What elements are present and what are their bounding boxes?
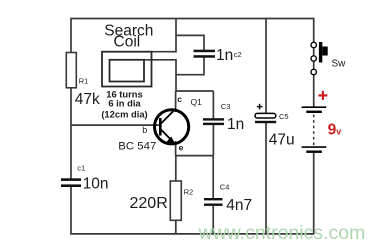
wire switch to battery <box>313 75 315 107</box>
svg-text:9v: 9v <box>328 121 342 138</box>
coil L1 inner winding rectangle <box>110 60 145 82</box>
svg-text:C3: C3 <box>221 102 231 111</box>
wire battery to bottom rail <box>313 153 315 234</box>
coil L1 outer winding rectangle <box>102 52 152 87</box>
battery BT1 cell2 short plate <box>306 151 322 153</box>
wire C2 branch top <box>176 35 204 50</box>
capacitor C4 plates <box>204 198 223 206</box>
wire switch link 2 <box>313 62 315 70</box>
capacitor C5 positive plate (outlined) <box>255 113 276 118</box>
wire C5 lower lead <box>265 123 267 234</box>
svg-text:47u: 47u <box>269 131 295 148</box>
wire right rail to switch <box>313 19 315 43</box>
svg-text:1n: 1n <box>227 116 244 133</box>
svg-text:c2: c2 <box>234 50 242 59</box>
svg-text:BC 547: BC 547 <box>118 140 156 152</box>
wire emitter loop bottom <box>176 155 214 157</box>
capacitor C3 plates <box>203 118 224 125</box>
wire R2 to bottom rail <box>175 220 177 234</box>
svg-text:10n: 10n <box>83 176 109 193</box>
svg-text:e: e <box>179 142 184 152</box>
wire left rail middle <box>70 88 72 179</box>
wire collector to C3 loop top <box>176 90 214 92</box>
wire C4 upper lead <box>212 156 214 199</box>
svg-text:47k: 47k <box>75 91 100 108</box>
svg-text:(12cm dia): (12cm dia) <box>101 108 147 119</box>
wire base <box>71 124 160 126</box>
svg-text:220R: 220R <box>130 195 168 212</box>
wire coil inner tap to collector <box>144 60 176 91</box>
svg-text:C5: C5 <box>279 112 289 121</box>
transistor Q1 circle <box>155 110 189 144</box>
svg-text:1n: 1n <box>216 47 233 64</box>
battery BT1 cell1 short plate <box>306 111 322 113</box>
capacitor C2 plates <box>194 50 216 58</box>
wire C2 branch bottom <box>176 58 204 75</box>
transistor Q1 emitter diagonal <box>161 129 176 144</box>
svg-text:www.cntronics.com: www.cntronics.com <box>198 222 366 244</box>
svg-text:c1: c1 <box>77 164 85 173</box>
switch Sw plunger knob <box>322 47 327 56</box>
wire C4 lower lead <box>212 206 214 234</box>
capacitor C5 plus sign <box>257 104 263 110</box>
resistor R1 <box>66 53 76 88</box>
wire collector vertical <box>175 91 177 112</box>
wire C3 lower lead <box>212 125 214 156</box>
svg-text:Coil: Coil <box>114 34 141 51</box>
transistor Q1 emitter arrow <box>167 137 176 145</box>
battery BT1 cell1 long plate <box>302 106 327 108</box>
wire top rail <box>70 18 314 20</box>
svg-text:C4: C4 <box>220 182 230 191</box>
svg-text:4n7: 4n7 <box>226 197 252 214</box>
transistor Q1 collector diagonal <box>161 109 176 124</box>
svg-text:Sw: Sw <box>332 58 347 69</box>
svg-text:R2: R2 <box>184 187 194 196</box>
wire coil top feed <box>152 19 177 52</box>
transistor Q1 base bar <box>159 118 162 136</box>
battery BT1 dashed link <box>313 115 315 146</box>
wire left rail lower <box>70 187 72 234</box>
switch Sw plunger bar <box>319 42 322 63</box>
wire emitter vertical <box>175 141 177 156</box>
svg-text:R1: R1 <box>79 76 89 85</box>
wire left rail upper <box>70 19 72 53</box>
svg-text:6 in dia: 6 in dia <box>108 97 141 108</box>
svg-text:Q1: Q1 <box>191 97 203 107</box>
battery BT1 cell2 long plate <box>302 146 327 148</box>
wire switch link 1 <box>313 48 315 56</box>
wire C5 upper lead <box>265 19 267 114</box>
wire C3 upper lead <box>212 91 214 118</box>
switch Sw contact circle 1 <box>311 42 316 47</box>
battery BT1 plus sign (red) <box>318 91 327 100</box>
capacitor C5 negative plate <box>255 121 276 123</box>
wire emitter to R2 <box>175 156 177 181</box>
svg-text:c: c <box>177 94 182 104</box>
switch Sw contact circle 3 <box>311 69 316 74</box>
resistor R2 <box>170 181 181 220</box>
svg-text:b: b <box>142 125 147 135</box>
wire bottom rail <box>70 233 314 235</box>
capacitor C1 plates <box>61 178 81 187</box>
switch Sw contact circle 2 <box>311 56 316 61</box>
